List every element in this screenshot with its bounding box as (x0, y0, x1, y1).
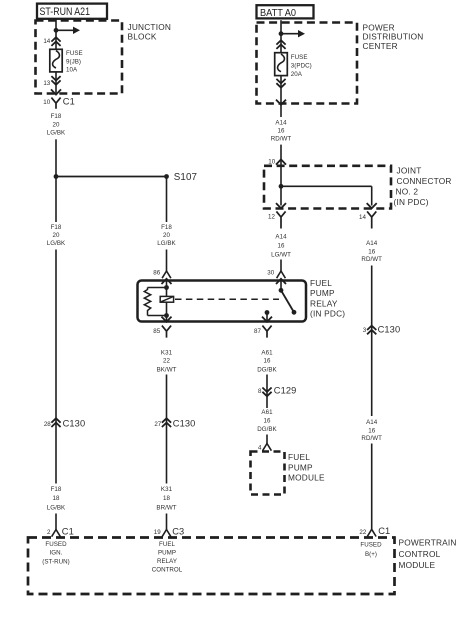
svg-text:A14: A14 (366, 419, 378, 426)
svg-text:RD/WT: RD/WT (361, 256, 382, 263)
svg-text:A61: A61 (261, 409, 273, 416)
svg-text:POWERTRAIN: POWERTRAIN (399, 538, 457, 548)
svg-text:LG/BK: LG/BK (47, 240, 66, 247)
svg-text:8: 8 (258, 388, 262, 395)
svg-text:C1: C1 (378, 526, 390, 536)
svg-text:3: 3 (363, 327, 367, 334)
svg-text:13: 13 (43, 80, 50, 87)
svg-text:C129: C129 (274, 385, 297, 395)
svg-text:C1: C1 (62, 526, 74, 536)
svg-text:BK/WT: BK/WT (157, 366, 177, 373)
svg-text:CENTER: CENTER (363, 41, 398, 51)
svg-text:14: 14 (43, 38, 50, 45)
svg-text:PUMP: PUMP (310, 288, 335, 298)
svg-text:28: 28 (44, 421, 51, 428)
svg-text:18: 18 (163, 495, 170, 502)
svg-text:C3: C3 (172, 526, 184, 536)
svg-text:BLOCK: BLOCK (128, 32, 157, 42)
svg-text:MODULE: MODULE (399, 560, 436, 570)
svg-text:FUSED: FUSED (360, 541, 382, 548)
svg-text:14: 14 (359, 214, 366, 221)
svg-text:16: 16 (368, 248, 375, 255)
svg-text:LG/BK: LG/BK (47, 505, 66, 512)
svg-text:BR/WT: BR/WT (156, 505, 176, 512)
svg-text:16: 16 (264, 417, 271, 424)
svg-text:A14: A14 (275, 120, 287, 127)
svg-text:CONTROL: CONTROL (152, 567, 183, 574)
svg-text:10: 10 (268, 158, 275, 165)
svg-text:C130: C130 (173, 419, 196, 429)
svg-text:18: 18 (53, 495, 60, 502)
svg-text:20: 20 (53, 232, 60, 239)
svg-text:DG/BK: DG/BK (257, 426, 277, 433)
svg-text:19: 19 (154, 529, 161, 536)
svg-text:C130: C130 (63, 419, 86, 429)
svg-text:NO. 2: NO. 2 (396, 186, 419, 196)
svg-text:RD/WT: RD/WT (271, 136, 292, 143)
svg-text:10: 10 (43, 99, 50, 106)
svg-text:9(JB): 9(JB) (66, 59, 81, 66)
svg-text:LG/BK: LG/BK (157, 240, 176, 247)
svg-text:10A: 10A (66, 67, 78, 74)
svg-text:MODULE: MODULE (288, 473, 325, 483)
svg-text:FUEL: FUEL (159, 541, 176, 548)
svg-text:C130: C130 (378, 324, 401, 334)
svg-text:22: 22 (359, 529, 366, 536)
svg-text:CONTROL: CONTROL (399, 549, 441, 559)
svg-text:A14: A14 (275, 234, 287, 241)
svg-text:K31: K31 (161, 486, 173, 493)
svg-text:F18: F18 (161, 224, 172, 231)
svg-text:LG/BK: LG/BK (47, 130, 66, 137)
svg-text:RELAY: RELAY (310, 298, 338, 308)
svg-text:A61: A61 (261, 349, 273, 356)
svg-text:(ST-RUN): (ST-RUN) (42, 558, 70, 565)
svg-text:20A: 20A (291, 71, 303, 78)
svg-text:DG/BK: DG/BK (257, 366, 277, 373)
svg-text:B(+): B(+) (365, 551, 377, 558)
svg-text:FUSE: FUSE (291, 54, 308, 61)
svg-text:FUEL: FUEL (288, 452, 310, 462)
svg-text:27: 27 (154, 421, 161, 428)
svg-text:F18: F18 (51, 486, 62, 493)
svg-text:87: 87 (254, 328, 261, 335)
svg-text:12: 12 (268, 214, 275, 221)
svg-text:JOINT: JOINT (397, 166, 422, 176)
svg-text:4: 4 (258, 444, 262, 451)
svg-text:RELAY: RELAY (157, 558, 177, 565)
svg-text:2: 2 (47, 529, 51, 536)
svg-text:LG/WT: LG/WT (271, 251, 291, 258)
svg-text:FUEL: FUEL (310, 278, 332, 288)
svg-text:C1: C1 (63, 96, 75, 106)
svg-text:FUSE: FUSE (66, 50, 83, 57)
svg-text:85: 85 (153, 328, 160, 335)
svg-text:16: 16 (278, 127, 285, 134)
svg-text:K31: K31 (161, 349, 173, 356)
svg-text:PUMP: PUMP (288, 462, 313, 472)
svg-text:(IN PDC): (IN PDC) (394, 197, 429, 207)
svg-text:3(PDC): 3(PDC) (291, 63, 312, 70)
svg-text:PUMP: PUMP (158, 549, 176, 556)
svg-text:FUSED: FUSED (45, 541, 67, 548)
svg-text:20: 20 (53, 121, 60, 128)
svg-text:16: 16 (368, 427, 375, 434)
svg-text:22: 22 (163, 358, 170, 365)
svg-text:F18: F18 (51, 113, 62, 120)
svg-text:16: 16 (278, 243, 285, 250)
svg-text:30: 30 (267, 270, 274, 277)
svg-text:(IN PDC): (IN PDC) (310, 309, 345, 319)
svg-text:A14: A14 (366, 240, 378, 247)
svg-text:16: 16 (264, 358, 271, 365)
svg-text:20: 20 (163, 232, 170, 239)
svg-text:BATT A0: BATT A0 (260, 8, 296, 19)
svg-text:IGN.: IGN. (50, 549, 63, 556)
svg-text:F18: F18 (51, 224, 62, 231)
svg-text:RD/WT: RD/WT (361, 435, 382, 442)
svg-text:S107: S107 (174, 172, 197, 183)
svg-text:ST-RUN A21: ST-RUN A21 (40, 6, 91, 18)
svg-text:86: 86 (153, 270, 160, 277)
svg-text:CONNECTOR: CONNECTOR (397, 176, 452, 186)
